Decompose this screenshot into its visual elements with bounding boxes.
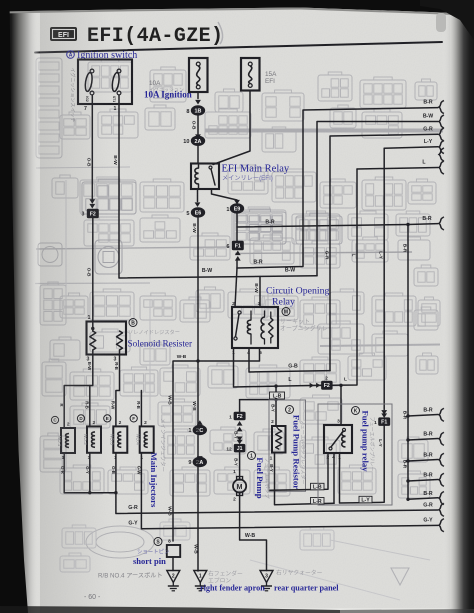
arrow down: [234, 200, 240, 205]
wire to fuel pump relay pin 3: [340, 385, 342, 425]
relay coil: [195, 168, 199, 184]
ignition switch SW1: [78, 60, 132, 105]
relay contact: [329, 428, 346, 450]
EFI main relay: [191, 164, 219, 190]
scan bottom-left black wedge: [0, 0, 28, 613]
connector F2b: [322, 381, 333, 389]
connector E6: [191, 207, 205, 217]
brace G-R top: [439, 128, 444, 141]
wire L-R: [275, 453, 335, 505]
wire fuse to connector: [197, 92, 199, 99]
wire L-Y vertical: [383, 148, 385, 409]
arrows down F1: [381, 413, 387, 418]
faded background diagram: [35, 58, 443, 600]
junction: [406, 223, 409, 226]
connector F2 pump: [234, 412, 245, 420]
brace B-W: [439, 115, 444, 128]
junction: [406, 498, 409, 501]
wire to injector 4: [140, 391, 142, 427]
wire G-Y line: [141, 453, 438, 529]
arrows down: [89, 204, 95, 209]
junction: [114, 491, 117, 494]
brace G-R: [439, 503, 444, 516]
lead: [119, 350, 121, 355]
junction: [88, 491, 91, 494]
wire B-R up to brace: [237, 108, 438, 268]
coil lead: [198, 184, 200, 188]
junction: [274, 398, 277, 401]
circled 2: [286, 406, 294, 414]
connector 2C: [193, 425, 207, 435]
wire G-B: [249, 348, 330, 372]
fuel pump relay: [324, 425, 352, 453]
wire B-R branch: [408, 498, 438, 500]
wire 15A to relay: [213, 91, 250, 165]
wire: [197, 116, 199, 135]
junction W-B: [196, 359, 199, 362]
brace L: [439, 161, 444, 174]
arrows down: [237, 440, 243, 445]
wire relay pin diagonal: [212, 189, 238, 200]
connector 2A: [193, 457, 207, 467]
wire: [236, 260, 238, 269]
circled A: [67, 51, 75, 59]
connector J1: [234, 444, 245, 452]
junction: [91, 327, 94, 330]
arrow right: [310, 383, 314, 388]
fuel pump relay outline: [318, 404, 392, 505]
junction: [406, 479, 409, 482]
brace B-R: [439, 492, 444, 505]
scan black top bar: [0, 0, 474, 14]
circled S: [154, 538, 162, 546]
connector F1 relay: [379, 418, 390, 426]
ground G2: [194, 571, 207, 583]
injector NO.2: [77, 415, 101, 461]
brace G-Y: [439, 519, 444, 532]
relay coil 2: [261, 317, 264, 339]
wire G-R line: [116, 453, 438, 514]
wire O-B: [91, 95, 93, 203]
switch blade IG2: [84, 69, 94, 102]
brace B-R: [439, 217, 444, 230]
scan shadow left edge: [0, 0, 40, 613]
arrow down: [195, 134, 201, 139]
wire L-Y loop: [340, 425, 385, 503]
solenoid resistor: [87, 322, 127, 355]
wire B-R branch: [408, 460, 438, 462]
brace extra: [439, 148, 444, 161]
arrow up: [197, 420, 203, 425]
wire injector2 down: [89, 453, 91, 493]
injector NO.4: [130, 415, 154, 461]
wire relay pin to E6: [197, 189, 199, 202]
wire G-R up to brace: [330, 134, 438, 370]
connector 1B: [191, 105, 205, 115]
lead: [92, 350, 94, 355]
junction: [406, 459, 409, 462]
wire to relay pin 2: [235, 268, 237, 307]
brace B-R: [439, 101, 444, 114]
fuse 15A EFI: [241, 58, 260, 91]
junction: [274, 384, 277, 387]
arrow right: [316, 383, 320, 388]
arrows up: [237, 421, 243, 426]
title rule: [35, 42, 442, 53]
wire down to resistor: [92, 218, 94, 322]
lead: [276, 426, 279, 430]
label L-R: [311, 498, 325, 505]
EFI badge logo: [50, 27, 77, 41]
wire to relay pin 4: [333, 453, 335, 503]
circled K: [352, 407, 360, 415]
relay resistor: [269, 318, 273, 338]
wire L-B horizontal: [240, 399, 276, 401]
fuel pump motor M: [233, 477, 246, 496]
label L-B: [270, 392, 285, 399]
ground G1: [167, 571, 180, 583]
junction: [406, 438, 409, 441]
label L-Y: [359, 496, 372, 503]
brace L-Y: [439, 141, 444, 154]
wire L-B down: [275, 386, 277, 426]
switch blade ST1: [111, 69, 121, 102]
wire L: [234, 348, 323, 387]
circled 1: [248, 452, 256, 460]
relay coil 1: [247, 320, 251, 334]
wire injector1 down: [64, 453, 116, 493]
wire L to brace: [357, 168, 438, 170]
brace B-R: [439, 432, 444, 445]
B-R bus vertical: [407, 225, 409, 500]
connector 2A: [191, 136, 205, 146]
scan bottom dark line: [0, 606, 340, 613]
wire to injector 2: [89, 386, 91, 427]
arrows up: [235, 251, 241, 256]
wire B-R branch: [408, 415, 438, 417]
label L-B: [311, 483, 325, 490]
circled M: [282, 308, 290, 316]
wire to relay: [197, 146, 199, 163]
connector E9: [230, 203, 244, 213]
fuse 10A Ignition: [189, 58, 208, 92]
wire B-R branch: [408, 439, 438, 441]
wire down: [236, 214, 238, 242]
injector NO.3: [104, 415, 128, 461]
relay contact: [234, 311, 241, 340]
resistor element 2: [117, 331, 123, 350]
fuel pump resistor: [272, 426, 286, 453]
wire B-W down: [197, 218, 199, 362]
wire B-W up to brace: [317, 122, 438, 276]
brace B-R: [439, 473, 444, 486]
wire to short pin: [173, 348, 260, 541]
wire W-B to ground: [197, 361, 199, 571]
scan shadow right edge: [442, 0, 474, 613]
injector NO.1: [51, 416, 75, 461]
wire B-R branch: [408, 480, 438, 482]
circuit opening relay: [232, 307, 278, 348]
coil lead: [198, 165, 200, 168]
wire B-W long: [119, 95, 317, 278]
brace B-R: [439, 408, 444, 421]
wire to pin 3: [259, 277, 261, 308]
wire L up: [332, 169, 357, 385]
relay contact blade: [209, 166, 215, 185]
arrow down: [197, 456, 203, 461]
wire L-Y to brace: [384, 147, 438, 148]
short pin box: [167, 545, 180, 557]
connector F1: [232, 241, 243, 250]
circled B: [129, 319, 137, 327]
connector F2: [87, 209, 98, 218]
wire to F2: [239, 400, 241, 413]
wire to ground: [172, 557, 174, 571]
fuel pump resistor outline: [269, 400, 306, 491]
brace B-R: [439, 453, 444, 466]
arrow down: [195, 202, 201, 207]
junction: [406, 414, 409, 417]
wire B-R to bus: [237, 225, 408, 228]
ground G3: [260, 571, 273, 583]
resistor element: [276, 430, 282, 450]
arrow down: [195, 100, 201, 105]
relay coil: [342, 431, 346, 447]
junction: [339, 384, 342, 387]
wire L-B: [270, 453, 328, 490]
lead: [92, 322, 94, 332]
wire to pump: [239, 452, 241, 479]
wire pump to ground: [240, 494, 267, 571]
wire to injector 1: [64, 355, 93, 429]
wire to injector 3: [116, 355, 120, 427]
resistor element 1: [90, 331, 96, 350]
wire B-R to brace: [408, 223, 438, 226]
faint pencil mark: [218, 22, 223, 44]
